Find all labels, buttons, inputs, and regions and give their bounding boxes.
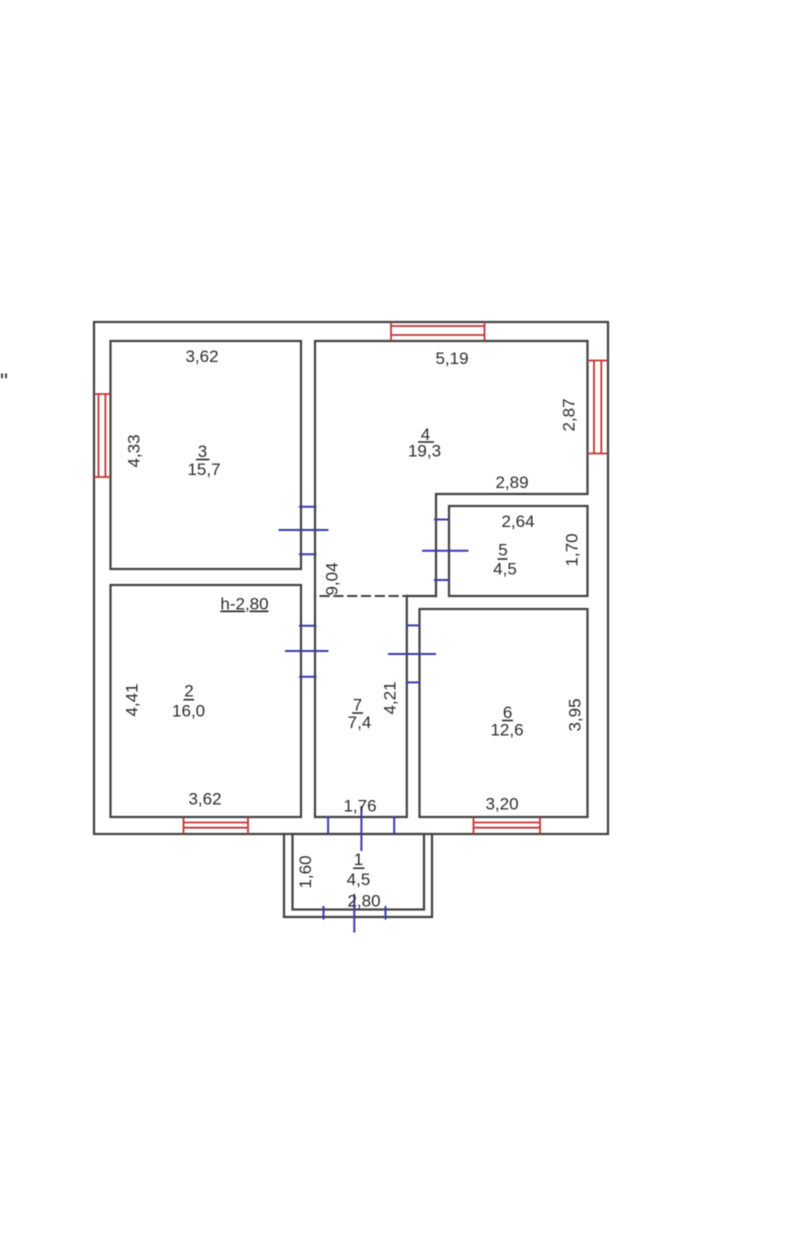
svg-text:": " [0, 369, 8, 394]
svg-text:12,6: 12,6 [490, 721, 523, 740]
svg-text:4,5: 4,5 [347, 870, 371, 889]
svg-text:2,87: 2,87 [560, 398, 579, 431]
svg-text:3,62: 3,62 [185, 347, 218, 366]
door D1b entrance [324, 894, 386, 933]
room 4 underline [418, 441, 434, 443]
door D5 hall to room 5 [422, 520, 469, 581]
window W5 bottom wall room 6 [474, 817, 541, 834]
svg-text:3,20: 3,20 [485, 795, 518, 814]
svg-text:15,7: 15,7 [187, 460, 220, 479]
svg-text:4,41: 4,41 [123, 683, 142, 716]
svg-text:2,80: 2,80 [347, 892, 380, 911]
dashed opening room4/corridor [321, 595, 407, 597]
svg-text:4,21: 4,21 [381, 681, 400, 714]
svg-text:5: 5 [498, 541, 507, 560]
svg-text:h-2,80: h-2,80 [220, 595, 268, 614]
svg-text:4,33: 4,33 [125, 434, 144, 467]
room 5 underline [498, 558, 508, 560]
room 5 (4,5) inner walls [449, 506, 588, 596]
room 7 underline [352, 712, 363, 714]
room 6 underline [502, 720, 513, 722]
window W4 bottom wall room 2 [184, 817, 249, 834]
vestibule outer wall [284, 834, 432, 917]
room 2 underline [184, 699, 195, 701]
svg-text:5,19: 5,19 [435, 349, 468, 368]
window W3 right wall room 4 [588, 361, 609, 454]
svg-text:19,3: 19,3 [408, 442, 441, 461]
svg-text:16,0: 16,0 [172, 702, 205, 721]
svg-text:2: 2 [184, 682, 193, 701]
door D2 room 2 to corridor [285, 626, 329, 677]
room 6 (12,6) inner walls [420, 609, 588, 817]
svg-text:2,89: 2,89 [495, 473, 528, 492]
svg-text:9,04: 9,04 [323, 562, 342, 595]
svg-text:4,5: 4,5 [493, 560, 517, 579]
svg-text:2,64: 2,64 [501, 512, 534, 531]
window W2 top wall room 4 [391, 322, 485, 341]
room 1 vestibule inner walls [293, 834, 425, 910]
svg-text:7,4: 7,4 [348, 713, 372, 732]
svg-text:1,70: 1,70 [563, 533, 582, 566]
door D1a corridor to vestibule [328, 806, 394, 851]
svg-text:7: 7 [353, 696, 362, 715]
room 7 corridor inner walls [315, 596, 407, 817]
outer wall [94, 322, 608, 834]
room 1 underline [353, 867, 365, 869]
svg-text:3,62: 3,62 [188, 790, 221, 809]
room 3 (15,7) inner walls [111, 341, 302, 569]
room 3 underline [196, 459, 210, 461]
svg-text:1,76: 1,76 [343, 797, 376, 816]
svg-text:6: 6 [503, 703, 512, 722]
room 4 (19,3) inner walls [315, 341, 588, 596]
door D3 room 3 to hall [279, 507, 329, 554]
door D6 corridor to room 6 [388, 625, 436, 682]
svg-text:3: 3 [198, 442, 207, 461]
wall segment corridor top right [407, 595, 436, 597]
svg-text:1: 1 [354, 850, 363, 869]
svg-text:1,60: 1,60 [296, 855, 315, 888]
room 2 (16,0) inner walls [111, 585, 302, 817]
svg-text:3,95: 3,95 [566, 698, 585, 731]
window W1 left wall room 3 [94, 394, 111, 477]
